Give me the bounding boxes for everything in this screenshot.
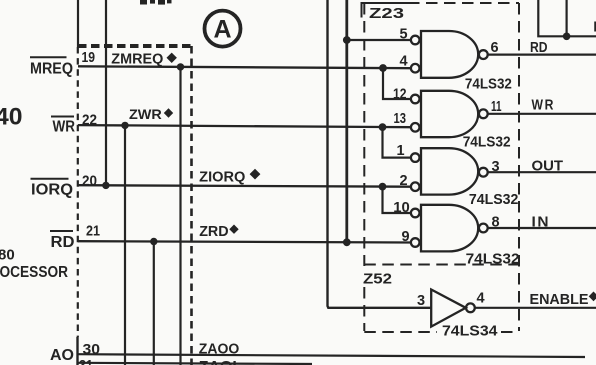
or-gate U1c output bubble pin3 (479, 168, 488, 177)
node MREQ/ZMREQ* junction (177, 63, 184, 70)
IC type labels (442, 77, 520, 340)
svg-text:MREQ: MREQ (30, 60, 73, 77)
svg-text:9: 9 (402, 229, 410, 245)
buffer Z52 output bubble (466, 303, 475, 312)
svg-text:3: 3 (492, 159, 500, 175)
svg-text:AO: AO (50, 347, 74, 364)
svg-text:74LS32: 74LS32 (463, 134, 511, 150)
svg-text:OCESSOR: OCESSOR (0, 264, 68, 281)
node A section marker circle (205, 11, 241, 47)
wire A1 row (pin 31, clipped at bottom) (78, 363, 313, 364)
wire RD row (pin 21) (78, 241, 411, 242)
svg-text:31: 31 (79, 357, 93, 365)
svg-text:74LS32: 74LS32 (466, 252, 520, 268)
or-gate U1a 74LS32 (RD) body (421, 31, 478, 78)
svg-text:13: 13 (394, 111, 407, 127)
svg-text:4: 4 (400, 54, 408, 70)
svg-text:ZMREQ: ZMREQ (111, 51, 163, 67)
node top-right junction (563, 33, 571, 41)
or-gate U1a output bubble pin6 (479, 50, 488, 59)
Z80 processor chip edge (dashed boundary) (76, 0, 79, 365)
or-gate U1c input bubble pin2 (411, 182, 420, 191)
svg-text:ZIORQ: ZIORQ (199, 169, 245, 185)
svg-text:74LS34: 74LS34 (442, 323, 498, 339)
wire WR output (gate2 pin 11) (488, 113, 596, 115)
svg-text:OUT: OUT (532, 157, 564, 174)
svg-text:ZAOO: ZAOO (199, 342, 240, 358)
svg-text:19: 19 (82, 49, 96, 66)
or-gate U1b output bubble pin11 (479, 109, 488, 118)
or-gate U1d input bubble pin9 (411, 238, 420, 247)
svg-text:74LS32: 74LS32 (465, 77, 512, 93)
wire WR branch to pin 1 (383, 127, 411, 158)
svg-text:5: 5 (400, 26, 408, 42)
Z23 dashed box (364, 3, 519, 332)
or-gate U1b input bubble pin13 (411, 123, 420, 132)
wire ZIORQ* vertical bus (up from IORQ node) (105, 0, 107, 185)
wire pin 5 horizontal (347, 39, 411, 41)
svg-text:4: 4 (477, 290, 485, 306)
node RD/ZRD* junction (150, 238, 157, 245)
wire MREQ branch to pin 12 (383, 68, 411, 99)
svg-text:8: 8 (492, 215, 500, 231)
svg-text:3: 3 (417, 293, 425, 309)
or-gate U1b 74LS32 (WR) body (421, 91, 478, 137)
or-gate U1a input bubble pin4 (411, 64, 420, 73)
svg-text:IN: IN (532, 214, 551, 231)
wire top-right partial rectangle (538, 0, 596, 36)
svg-text:ZRD: ZRD (199, 224, 228, 240)
Z net labels (111, 51, 260, 365)
wire A0 row (pin 30) (78, 354, 586, 357)
svg-text:A: A (213, 16, 231, 44)
svg-text:21: 21 (86, 223, 100, 240)
or-gate U1d 74LS32 (IN) body (421, 205, 478, 252)
or-gate U1c 74LS32 (OUT) body (421, 148, 478, 194)
left pin name labels (30, 57, 75, 364)
svg-text:Z23: Z23 (369, 5, 404, 22)
svg-text:ZWR: ZWR (129, 106, 162, 122)
output signal labels (530, 19, 596, 309)
gate pin numbers (393, 26, 502, 309)
svg-text:10: 10 (393, 200, 410, 216)
svg-text:ENABLE: ENABLE (530, 291, 589, 308)
svg-text:WR: WR (532, 97, 556, 114)
svg-text:2: 2 (400, 173, 408, 189)
buffer Z52 74LS34 body (431, 290, 466, 327)
or-gate U1a input bubble pin5 (411, 36, 420, 45)
svg-text:20: 20 (82, 172, 97, 189)
svg-text:11: 11 (491, 99, 502, 115)
partial text top edge (140, 0, 172, 5)
or-gate U1d input bubble pin10 (411, 209, 420, 218)
or-gate U1c input bubble pin1 (411, 153, 420, 162)
wire RD output (gate1 pin 6) (488, 53, 596, 55)
wire MREQ row (pin 19) (78, 66, 411, 68)
wire RD net vertical to gate pin 5 (345, 0, 348, 242)
wire WR row (pin 22) (78, 125, 411, 127)
svg-text:30: 30 (83, 341, 101, 358)
op-amp placeholder replaced below by gates (411, 31, 488, 327)
svg-text:22: 22 (82, 111, 97, 128)
svg-text:74LS32: 74LS32 (469, 192, 519, 208)
or-gate U1b input bubble pin12 (411, 95, 420, 104)
node WR/ZWR* junction (121, 122, 128, 129)
node IORQ/ZIORQ* junction (102, 182, 109, 189)
Z23 label corner bracket (362, 2, 409, 18)
dashed interface label box (right edge) (190, 46, 193, 365)
svg-text:80: 80 (0, 247, 15, 264)
wire ENABLE* output (475, 307, 596, 309)
wire IORQ branch to pin 10 (383, 187, 411, 213)
node IORQ branch junction (379, 183, 387, 191)
svg-text:Z52: Z52 (363, 270, 392, 287)
svg-text:12: 12 (393, 87, 407, 103)
wire IORQ row (pin 20) (78, 185, 411, 187)
svg-text:6: 6 (491, 40, 499, 56)
wire ZMREQ* vertical bus (down from MREQ node) (179, 67, 181, 365)
svg-text:IORQ: IORQ (31, 181, 73, 198)
dashed interface label box (top edge) (78, 44, 192, 48)
svg-text:RD: RD (51, 234, 75, 251)
svg-text:40: 40 (0, 104, 23, 131)
wire ZRD* vertical bus (down from RD node) (153, 242, 155, 365)
wire IN output (gate4 pin 8) (488, 227, 596, 229)
or-gate U1d output bubble pin8 (479, 224, 488, 233)
svg-text:WR: WR (53, 118, 76, 135)
wire ZWR* vertical bus (down from WR node) (124, 125, 126, 365)
node WR branch junction (379, 123, 387, 131)
wire ENABLE input vertical from top (328, 0, 432, 308)
node MREQ branch junction (379, 64, 387, 72)
node RD to pin5 junction (343, 36, 351, 44)
node RD row junction (343, 238, 351, 246)
wire top-right vertical stub (565, 0, 567, 36)
svg-text:ZAOI: ZAOI (199, 359, 237, 365)
wire OUT output (gate3 pin 3) (488, 171, 596, 173)
svg-text:RD: RD (530, 39, 548, 56)
svg-text:1: 1 (397, 143, 405, 159)
pin numbers on chip (79, 49, 100, 365)
